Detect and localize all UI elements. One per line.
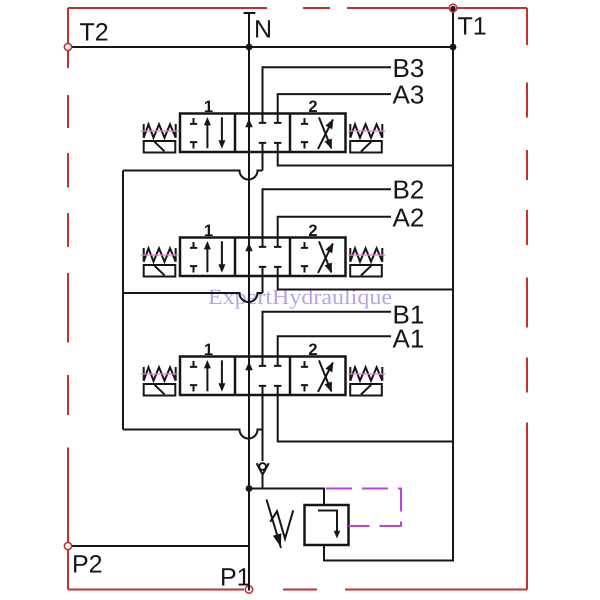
junction node P to relief [246, 485, 253, 492]
node N top bar [244, 12, 256, 14]
junction node N [246, 44, 253, 51]
wire: tank line T2 to T1 [68, 46, 453, 48]
wire: central P/N line [248, 13, 250, 591]
wire: valve1 return to rail [278, 152, 453, 166]
port P2 [64, 542, 71, 549]
relief valve spring zigzag [270, 510, 293, 539]
svg-text:A1: A1 [393, 324, 425, 354]
valve section 2 (B2/A2) [141, 222, 385, 277]
wire: A2 line [278, 217, 391, 238]
relief valve body [305, 505, 349, 545]
wire: valve2 bottom left stub [262, 276, 264, 294]
port T1 [449, 4, 457, 12]
dashed red enclosure border [68, 8, 527, 590]
wire: section divider 1 with hop [123, 171, 263, 180]
wire: valve3 return to rail [278, 394, 453, 442]
svg-text:N: N [254, 16, 272, 44]
wire: B2 line [263, 189, 392, 237]
junction node T1 column [450, 44, 457, 51]
wire: A1 line [278, 336, 391, 356]
svg-text:B3: B3 [393, 53, 425, 83]
svg-text:P1: P1 [220, 563, 251, 591]
check valve ball [259, 463, 266, 470]
svg-text:P2: P2 [72, 551, 103, 579]
wire: section bottom boundary with hop [123, 430, 263, 439]
wire: relief valve feed line [249, 489, 324, 506]
svg-text:T1: T1 [458, 13, 487, 41]
svg-text:A3: A3 [393, 80, 425, 110]
svg-text:A2: A2 [393, 202, 425, 232]
wire: P2 line [68, 545, 249, 547]
svg-text:T2: T2 [80, 18, 109, 46]
relief valve internal path [318, 511, 337, 534]
port T2 [64, 43, 71, 50]
svg-text:B2: B2 [393, 175, 425, 205]
wire: left tank rail [122, 171, 124, 430]
wire: A3 line [278, 94, 391, 113]
wire: valve2 return to rail [278, 276, 453, 290]
wire: B1 line [263, 312, 392, 357]
wire: section divider 2 with hop [123, 293, 263, 302]
port P1 [245, 586, 252, 593]
wire: valve1 bottom left stub [262, 152, 264, 171]
check valve seat [257, 463, 269, 474]
magenta pilot line [326, 489, 401, 527]
wire: B3 line [263, 67, 392, 113]
wire: valve3 bottom left stub to check valve [262, 394, 264, 489]
wire: right tank rail from T1 [324, 8, 453, 561]
relief valve adjustable spring arrow [267, 500, 282, 549]
valve section 3 (B1/A1) [141, 341, 385, 396]
valve section 1 (B3/A3) [141, 98, 385, 153]
